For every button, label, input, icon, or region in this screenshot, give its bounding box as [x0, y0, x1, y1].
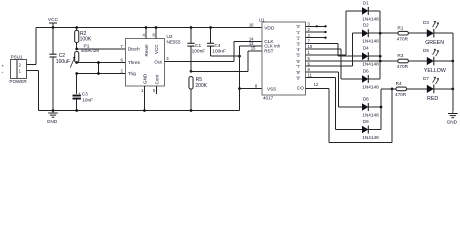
svg-text:'5': '5'	[296, 53, 300, 58]
diode D2 1N4148	[362, 23, 380, 44]
wire VCC rail	[36, 26, 262, 29]
pin 14 label	[249, 36, 254, 41]
wire 555 Reset pin 4 to rail	[142, 26, 147, 38]
wire C4 to VSS/GND vertical	[211, 46, 241, 111]
svg-text:100K: 100K	[80, 37, 92, 43]
pin 15 label	[251, 46, 256, 51]
LED D3 GREEN	[423, 20, 453, 46]
wire CO loop around matrix	[329, 88, 393, 143]
svg-text:R4: R4	[396, 81, 402, 86]
wire 4017 output '8' (pin 9)	[306, 67, 339, 72]
wire 4017 output '5' (pin 1)	[306, 50, 347, 55]
svg-text:R1: R1	[397, 25, 403, 30]
pin 16 label	[249, 22, 254, 27]
wire node Thres	[75, 61, 125, 64]
svg-text:Cont: Cont	[154, 74, 159, 84]
svg-text:470R: 470R	[395, 92, 407, 97]
wire output 4 to D6 anode	[341, 49, 362, 79]
wire output 9 to D9 anode	[336, 78, 363, 130]
svg-text:100nF: 100nF	[212, 48, 226, 54]
ground symbol (left)	[47, 111, 58, 125]
svg-text:VCC: VCC	[48, 17, 59, 23]
svg-text:16: 16	[249, 22, 254, 27]
svg-text:100nF: 100nF	[192, 48, 206, 54]
resistor R4 470R	[381, 81, 427, 97]
resistor R1 470R	[380, 25, 427, 41]
wire PSU1 pin2 to VCC rail	[27, 28, 37, 65]
wire timing node to C3	[76, 74, 78, 95]
capacitor C3 10nF	[73, 91, 94, 112]
svg-text:D8: D8	[363, 96, 369, 101]
svg-text:CO: CO	[297, 86, 304, 91]
node stub end output 0	[324, 25, 326, 27]
resistor R5 200K	[189, 77, 208, 112]
capacitor C2 100uF	[49, 28, 70, 112]
resistor R2 100K	[75, 26, 92, 49]
svg-text:Disch: Disch	[128, 47, 140, 53]
svg-text:RED: RED	[427, 96, 438, 102]
svg-text:470R: 470R	[397, 36, 409, 41]
LED D7 RED	[423, 76, 454, 102]
svg-text:4017: 4017	[263, 95, 274, 100]
potentiometer P1 500K/1M	[70, 44, 99, 68]
svg-text:'0': '0'	[296, 24, 300, 29]
resistor R3 470R	[397, 53, 427, 69]
wire CO output (pin 12)	[306, 82, 330, 89]
VCC power symbol	[48, 17, 59, 28]
op-amp U2 NE555 timer	[125, 34, 181, 86]
svg-text:GREEN: GREEN	[425, 40, 444, 46]
svg-text:D6: D6	[363, 68, 369, 73]
svg-text:R3: R3	[397, 53, 403, 58]
svg-text:1N4148: 1N4148	[362, 84, 379, 89]
svg-text:D5: D5	[423, 48, 429, 53]
wire 555 VCC pin 8 to rail	[152, 26, 157, 38]
svg-text:D1: D1	[363, 0, 369, 5]
wire 4017 CLK Inh pin 13 to ground net	[240, 45, 263, 47]
svg-text:+: +	[1, 64, 4, 69]
svg-text:1N4148: 1N4148	[362, 135, 379, 140]
wire output 7 to D2 anode	[353, 33, 362, 66]
wire 4017 output '6' (pin 5)	[306, 56, 398, 61]
svg-text:VCC: VCC	[154, 44, 159, 54]
wire 4017 RST pin 15 to POR node	[248, 51, 262, 72]
node stub end output 2	[324, 37, 326, 39]
svg-text:11: 11	[308, 73, 313, 78]
svg-text:C1: C1	[195, 43, 201, 49]
svg-text:15: 15	[251, 46, 256, 51]
wire 4017 VSS pin 8	[240, 83, 263, 88]
svg-text:'9': '9'	[296, 76, 300, 81]
svg-text:NE555: NE555	[167, 39, 181, 44]
wire 4017 output '4' (pin 10)	[306, 44, 341, 49]
svg-text:D4: D4	[363, 46, 369, 51]
svg-text:Trig: Trig	[128, 71, 136, 77]
svg-text:VSS: VSS	[267, 87, 276, 92]
svg-text:200K: 200K	[195, 83, 207, 89]
wire node Trig	[75, 61, 125, 75]
wire 555 Out to 4017 CLK	[164, 42, 262, 62]
svg-text:GND: GND	[47, 119, 58, 124]
wire 555 GND pin 1 to rail	[141, 86, 146, 112]
wire GND rail	[39, 110, 240, 112]
svg-text:D2: D2	[363, 23, 369, 28]
node stub end output 1	[324, 31, 326, 33]
counter U1 4017	[259, 17, 306, 100]
pin 13 label	[249, 41, 254, 46]
wire 4017 output '9' (pin 11)	[306, 73, 336, 78]
svg-text:1N4148: 1N4148	[362, 62, 379, 67]
pin 6 label	[120, 57, 123, 62]
svg-text:'8': '8'	[296, 70, 300, 75]
svg-text:GND: GND	[142, 73, 147, 84]
svg-text:U1: U1	[259, 17, 265, 22]
svg-text:RST: RST	[264, 49, 273, 54]
wire output 3 bus to D4 anode	[338, 43, 362, 56]
svg-text:1N4148: 1N4148	[362, 112, 379, 117]
pin 7 label	[120, 44, 123, 49]
svg-text:C4: C4	[214, 43, 220, 49]
svg-text:10: 10	[308, 44, 313, 49]
wire PSU1 pin1 to GND rail	[27, 71, 39, 111]
wire 4017 output '3' (pin 7)	[306, 39, 339, 44]
wire 4017 output '0' (pin 3)	[306, 21, 326, 26]
svg-text:10nF: 10nF	[82, 97, 93, 102]
svg-text:POWER: POWER	[9, 79, 27, 84]
diode D6 1N4148	[362, 68, 380, 89]
wire 555 Cont pin 5 stub	[153, 86, 157, 94]
svg-text:PSU1: PSU1	[11, 55, 23, 60]
svg-text:-: -	[2, 70, 4, 76]
svg-text:Reset: Reset	[144, 44, 149, 57]
node cathode bus upper	[379, 11, 382, 79]
svg-text:1N4148: 1N4148	[362, 39, 379, 44]
connector PSU1 (POWER)	[1, 55, 27, 84]
svg-text:1N4148: 1N4148	[362, 16, 379, 21]
wire output 5 to D1 anode	[346, 11, 362, 55]
diode D8 1N4148	[362, 96, 381, 117]
svg-text:D3: D3	[423, 20, 429, 25]
svg-text:C3: C3	[82, 92, 88, 97]
capacitor C4 100nF	[207, 26, 226, 56]
svg-text:'3': '3'	[296, 41, 300, 46]
node cathode bus lower	[380, 89, 383, 130]
svg-text:YELLOW: YELLOW	[424, 68, 446, 74]
ground symbol (right)	[447, 111, 458, 125]
svg-text:'7': '7'	[296, 64, 300, 69]
svg-text:Thres: Thres	[128, 60, 141, 66]
svg-text:GND: GND	[447, 120, 458, 125]
pin 2 label	[120, 68, 123, 73]
capacitor C1 100nF	[187, 26, 205, 71]
svg-text:D7: D7	[423, 76, 429, 81]
svg-text:'2': '2'	[296, 36, 300, 41]
wire 4017 output '7' (pin 6)	[306, 61, 353, 66]
wire POR node bus	[190, 70, 248, 73]
svg-text:'1': '1'	[296, 30, 300, 35]
svg-text:500K/1M: 500K/1M	[81, 48, 99, 53]
diode D1 1N4148	[362, 0, 380, 21]
LED D5 YELLOW	[423, 48, 454, 74]
svg-text:D9: D9	[363, 119, 369, 124]
node junction on output 0	[316, 25, 318, 27]
wire output 8 to D8 anode	[339, 72, 363, 107]
svg-text:12: 12	[314, 82, 319, 87]
svg-text:'4': '4'	[296, 47, 300, 52]
wire 4017 output '1' (pin 2)	[306, 27, 326, 32]
svg-text:100uF: 100uF	[56, 59, 70, 65]
wire node Disch	[75, 48, 125, 51]
diode D9 1N4148	[362, 119, 381, 140]
svg-text:VDD: VDD	[264, 25, 275, 31]
diode D4 1N4148	[362, 46, 380, 67]
svg-text:Out: Out	[154, 59, 162, 64]
svg-text:470R: 470R	[397, 64, 409, 69]
wire 4017 output '2' (pin 4)	[306, 33, 326, 38]
wire LED cathode bus to ground	[452, 33, 454, 111]
